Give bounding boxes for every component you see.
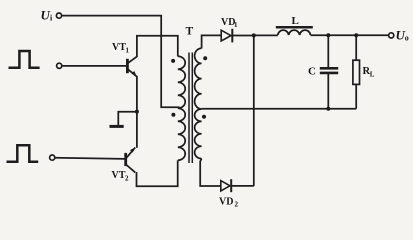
wire VT2 collector to primary bottom [137,160,178,186]
resistor RL [353,35,360,109]
label C [308,66,316,78]
wire base 2 [55,158,125,159]
svg-text:i: i [50,14,53,23]
svg-text:U: U [41,8,51,23]
node VD cathodes junction [252,33,256,37]
pulse waveform input 1 [9,51,40,68]
output terminal Uo [389,33,394,38]
node RL top [354,33,358,37]
transformer core [189,53,192,164]
label Uo [396,28,409,43]
pulse waveform input 2 [7,145,39,162]
input terminal base 1 [57,63,62,68]
label VT1 [112,42,130,55]
svg-text:L: L [370,71,375,79]
transistor VT2 [126,147,136,172]
wire C node to RL node [328,34,356,36]
svg-text:2: 2 [235,201,239,209]
svg-text:C: C [308,66,316,78]
node C bottom [326,107,330,111]
wire secondary bottom to VD2 [200,159,221,186]
primary dot bottom [171,113,175,117]
wire VT1 emitter down to ground node [136,76,138,112]
wire node to inductor [254,34,278,36]
transformer secondary winding [195,48,202,158]
primary dot top [171,59,175,63]
wire Ui to primary center tap [62,16,180,108]
label Ui [41,8,54,23]
svg-text:2: 2 [125,175,129,183]
svg-text:VT: VT [112,170,126,181]
diode VD1 [221,29,252,43]
label VD2 [219,197,239,209]
wire base 1 [62,65,127,67]
ground [110,112,138,127]
node ground junction [135,110,139,114]
label RL [363,66,375,79]
svg-text:L: L [292,15,299,27]
wire secondary top to VD1 [202,35,222,48]
inductor L [276,27,313,35]
label L [292,15,299,27]
svg-text:VT: VT [112,42,126,53]
wire inductor to C node [311,34,329,36]
wire VD2 cathode riser [253,35,255,186]
transformer T primary winding [178,56,185,160]
svg-text:T: T [186,26,194,38]
svg-text:VD: VD [219,197,233,208]
label VT2 [112,170,130,183]
label T [186,26,194,38]
capacitor C [320,35,338,109]
wire VT1 collector to primary top [137,36,178,57]
wire ground node to VT2 emitter [136,112,138,148]
input terminal base 2 [50,155,55,160]
transistor VT1 [127,56,137,77]
label VD1 [221,17,238,29]
wire RL node to output terminal [356,34,388,36]
svg-text:1: 1 [234,21,238,29]
node C top [326,33,330,37]
secondary dot top [203,56,207,60]
input terminal Ui [56,13,61,18]
wire output bottom rail from secondary center tap [202,108,357,110]
svg-text:1: 1 [126,47,130,55]
svg-text:o: o [405,34,409,43]
diode VD2 [221,179,254,192]
secondary dot bottom [202,115,206,119]
